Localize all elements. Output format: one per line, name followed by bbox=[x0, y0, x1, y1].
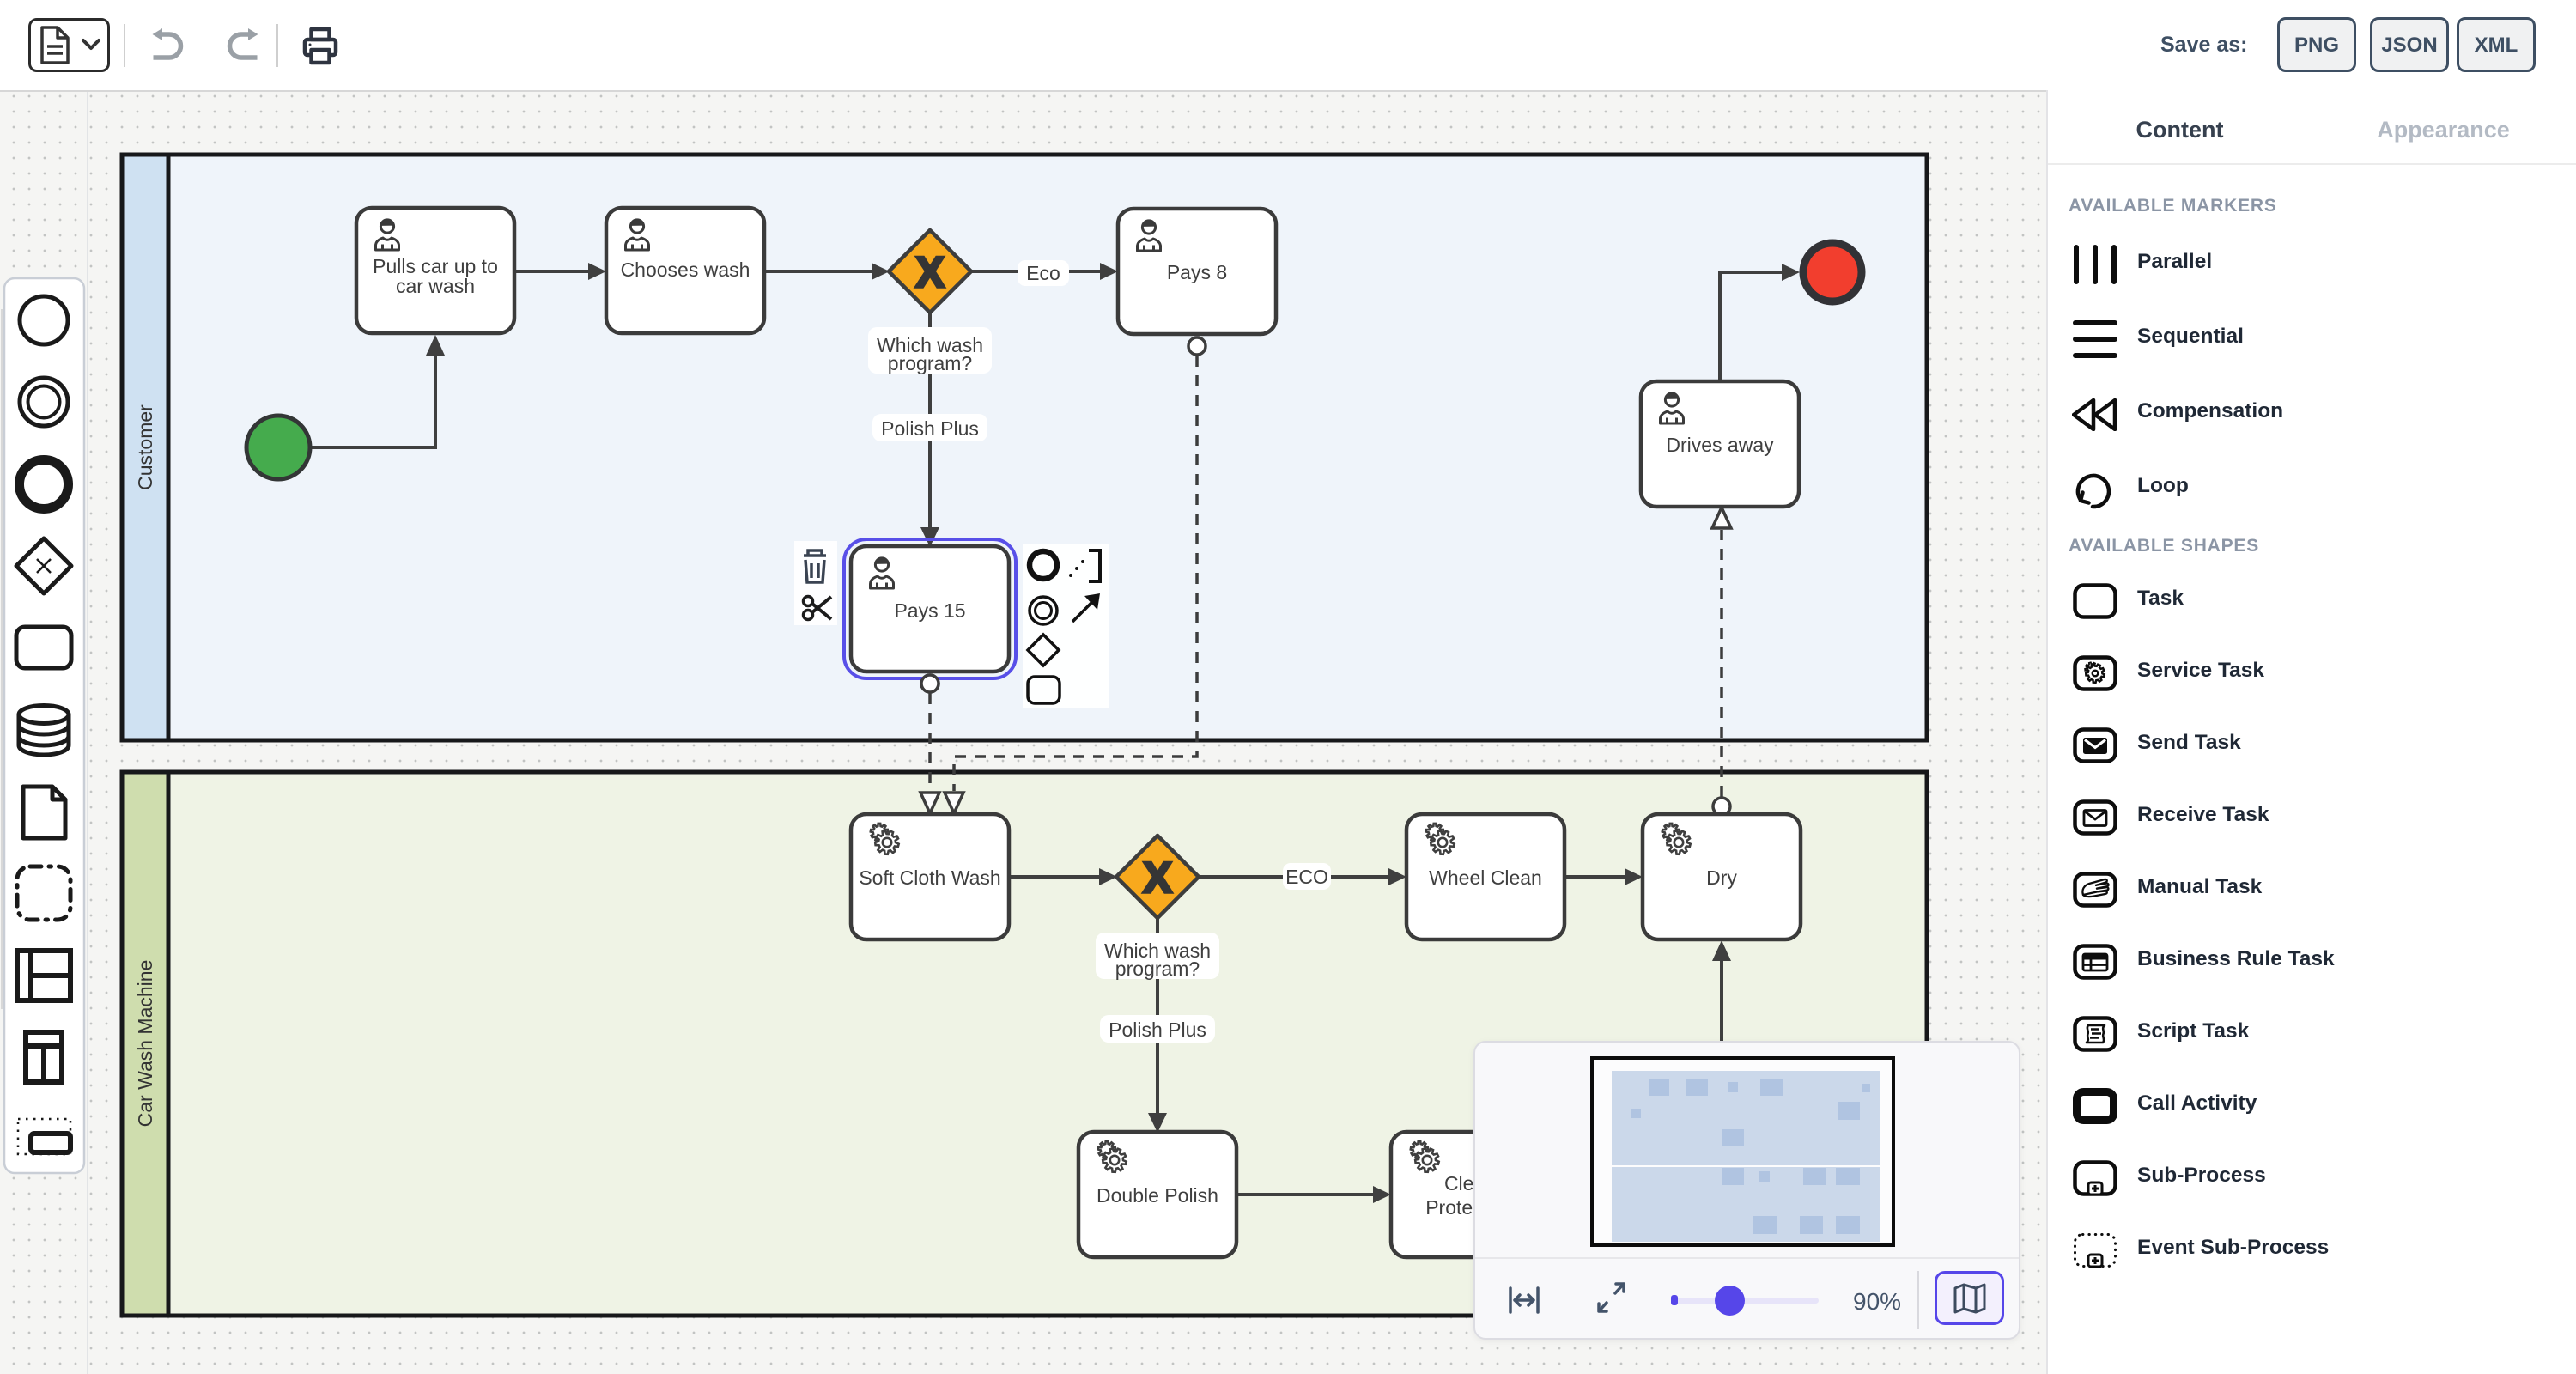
shape Call Activity bbox=[2073, 1088, 2117, 1124]
start event bbox=[246, 416, 310, 479]
wire message Pays15->SoftClothWash bbox=[920, 675, 939, 813]
minimap zoom slider bbox=[1671, 1298, 1819, 1304]
print icon bbox=[301, 27, 339, 66]
shape Manual Task bbox=[2073, 872, 2117, 908]
minimap map icon bbox=[1952, 1282, 1988, 1315]
wire DoublePolish->CleanProtection bbox=[1236, 1186, 1391, 1203]
svg-text:Drives away: Drives away bbox=[1666, 434, 1774, 456]
save as label bbox=[2160, 33, 2247, 58]
icon person T1 bbox=[376, 219, 399, 250]
label ECO bbox=[1283, 863, 1331, 890]
wire SCW->G2 bbox=[1009, 868, 1117, 885]
wire T1->T2 bbox=[514, 263, 606, 280]
icon gear DoublePolish bbox=[1098, 1141, 1127, 1172]
undo icon bbox=[151, 27, 191, 64]
icon quick arrow bbox=[1072, 593, 1100, 622]
icon person Pays15 bbox=[871, 557, 894, 588]
svg-text:Double Polish: Double Polish bbox=[1097, 1184, 1218, 1207]
selection ring Pays 15 bbox=[844, 539, 1016, 678]
task Dry bbox=[1643, 814, 1801, 939]
palette panel bbox=[4, 278, 84, 1173]
svg-text:program?: program? bbox=[1115, 958, 1200, 980]
wire message Dry->DrivesAway bbox=[1712, 508, 1731, 815]
marker Compensation bbox=[2072, 398, 2120, 431]
task Pays 8 bbox=[1118, 209, 1276, 334]
wire start->T1 bbox=[311, 335, 445, 447]
shape Event Sub-Process bbox=[2073, 1232, 2117, 1270]
palette datastore bbox=[19, 706, 69, 756]
icon scissors bbox=[804, 597, 832, 620]
minimap nodes bbox=[1649, 1079, 1669, 1096]
wire T2->G1 bbox=[764, 263, 890, 280]
task Drives away bbox=[1641, 381, 1799, 507]
wire WheelClean->Dry bbox=[1564, 868, 1643, 885]
shape Task bbox=[2073, 583, 2117, 619]
svg-text:Polish Plus: Polish Plus bbox=[881, 417, 979, 440]
marker Parallel bbox=[2073, 245, 2117, 284]
shape Receive Task bbox=[2073, 799, 2117, 836]
shape Send Task bbox=[2073, 727, 2117, 763]
task T2 Chooses wash bbox=[606, 208, 764, 333]
wire G1->Pays15 Polish Plus bbox=[920, 313, 939, 547]
shape Service Task bbox=[2073, 655, 2117, 691]
icon gear CleanProtection bbox=[1411, 1141, 1439, 1172]
icon person Pays8 bbox=[1138, 220, 1161, 251]
svg-text:Chooses wash: Chooses wash bbox=[621, 258, 750, 281]
palette pool horizontal bbox=[17, 951, 70, 1000]
wire CleanProtection->Dry bbox=[1712, 940, 1731, 1042]
svg-text:Customer: Customer bbox=[134, 404, 156, 490]
minimap toolbar separator bbox=[1475, 1257, 2019, 1259]
pool Customer bbox=[122, 155, 1927, 740]
marker Loop bbox=[2072, 469, 2117, 514]
shape Business Rule Task bbox=[2073, 944, 2117, 980]
task Soft Cloth Wash bbox=[851, 814, 1009, 939]
wire DrivesAway->End bbox=[1720, 264, 1800, 381]
minimap separator bbox=[1917, 1271, 1919, 1329]
palette pool vertical bbox=[26, 1032, 62, 1082]
svg-text:Wheel Clean: Wheel Clean bbox=[1429, 866, 1542, 889]
svg-text:Polish Plus: Polish Plus bbox=[1109, 1018, 1206, 1041]
minimap pool top bbox=[1612, 1071, 1880, 1165]
PNG button bbox=[2277, 17, 2356, 72]
icon quick double circle bbox=[1030, 597, 1057, 624]
toolbar separator 1 bbox=[124, 24, 125, 67]
label Which wash program? (top) bbox=[868, 327, 992, 374]
icon gear Dry bbox=[1662, 824, 1691, 854]
shape Script Task bbox=[2073, 1016, 2117, 1052]
task Wheel Clean bbox=[1406, 814, 1564, 939]
quick menu backdrop bbox=[1023, 544, 1109, 708]
svg-text:ECO: ECO bbox=[1285, 866, 1328, 888]
gateway G1 bbox=[889, 230, 971, 313]
palette end event bbox=[20, 460, 69, 509]
svg-text:X: X bbox=[1143, 854, 1171, 902]
svg-text:Pays 15: Pays 15 bbox=[894, 599, 965, 622]
icon gear WheelClean bbox=[1426, 824, 1455, 854]
svg-text:Soft Cloth Wash: Soft Cloth Wash bbox=[859, 866, 1000, 889]
marker Sequential bbox=[2073, 319, 2117, 359]
icon quick thick circle bbox=[1030, 551, 1057, 579]
palette gateway bbox=[16, 538, 71, 593]
svg-text:Pays 8: Pays 8 bbox=[1167, 261, 1227, 283]
palette data object bbox=[23, 787, 65, 838]
icon trash bbox=[804, 550, 826, 582]
JSON button bbox=[2370, 17, 2449, 72]
icon quick diamond bbox=[1028, 635, 1059, 666]
task Pays 15 bbox=[851, 546, 1009, 672]
minimap map button bbox=[1935, 1271, 2004, 1325]
svg-text:program?: program? bbox=[888, 352, 972, 374]
selection toolbar backdrop left bbox=[794, 541, 837, 625]
wire G2->DoublePolish Polish Plus bbox=[1148, 918, 1167, 1133]
icon quick dotted bracket bbox=[1069, 550, 1100, 581]
palette task bbox=[16, 627, 71, 668]
svg-text:car wash: car wash bbox=[396, 275, 475, 297]
wire message Pays8->SoftClothWash bbox=[945, 337, 1206, 813]
svg-text:Eco: Eco bbox=[1026, 262, 1060, 284]
label Polish Plus (top) bbox=[872, 414, 987, 441]
palette start event bbox=[20, 296, 68, 344]
palette group bbox=[17, 866, 70, 920]
icon person DrivesAway bbox=[1661, 392, 1684, 423]
icon person T2 bbox=[626, 219, 649, 250]
file menu button bbox=[28, 18, 110, 72]
pool Car Wash Machine bbox=[122, 772, 1927, 1316]
svg-text:X: X bbox=[915, 248, 944, 296]
end event bbox=[1803, 243, 1862, 301]
icon gear SoftClothWash bbox=[871, 824, 899, 854]
task T1 Pulls car up to car wash bbox=[356, 208, 514, 333]
task Clean Protection bbox=[1391, 1132, 1549, 1257]
XML button bbox=[2457, 17, 2536, 72]
wire G2->WheelClean ECO bbox=[1199, 868, 1406, 885]
wire G1->Pays8 Eco bbox=[971, 263, 1118, 280]
palette intermediate event bbox=[20, 378, 68, 426]
toolbar separator 2 bbox=[276, 24, 278, 67]
task Double Polish bbox=[1078, 1132, 1236, 1257]
node message handle on Pays15 bbox=[921, 675, 939, 692]
icon quick task bbox=[1028, 677, 1060, 703]
minimap zoom percent bbox=[1853, 1288, 1901, 1316]
label Eco bbox=[1018, 260, 1069, 286]
label Polish Plus (bottom) bbox=[1100, 1015, 1215, 1043]
shape Sub-Process bbox=[2073, 1160, 2117, 1198]
label Which wash program? (bottom) bbox=[1096, 933, 1219, 980]
palette lane bbox=[18, 1119, 70, 1154]
redo icon bbox=[220, 27, 259, 64]
minimap expand icon bbox=[1593, 1277, 1631, 1318]
svg-text:Dry: Dry bbox=[1706, 866, 1737, 889]
minimap viewport bbox=[1590, 1056, 1895, 1247]
gateway G2 bbox=[1116, 836, 1199, 918]
minimap pool bottom bbox=[1612, 1167, 1880, 1242]
svg-text:Car Wash Machine: Car Wash Machine bbox=[134, 960, 156, 1128]
minimap fit icon bbox=[1507, 1283, 1541, 1317]
